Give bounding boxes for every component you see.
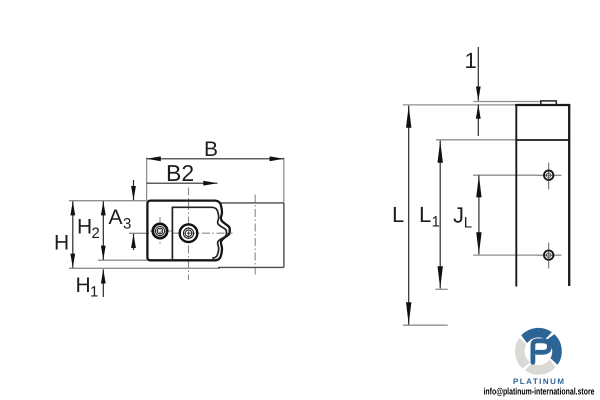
svg-text:H: H (77, 216, 92, 239)
svg-text:info@platinum-international.st: info@platinum-international.store (484, 387, 595, 398)
svg-text:L: L (392, 202, 404, 227)
svg-text:3: 3 (123, 216, 131, 233)
svg-text:L: L (464, 215, 472, 232)
svg-text:1: 1 (90, 284, 98, 301)
svg-text:PLATINUM: PLATINUM (513, 377, 566, 386)
svg-text:B: B (204, 138, 218, 161)
svg-text:A: A (109, 206, 123, 229)
svg-text:1: 1 (432, 214, 440, 231)
svg-text:L: L (419, 202, 431, 227)
svg-text:H: H (54, 232, 69, 255)
svg-text:B2: B2 (166, 160, 194, 186)
svg-text:J: J (453, 202, 464, 227)
svg-text:1: 1 (465, 48, 477, 73)
svg-text:H: H (76, 274, 91, 297)
svg-text:2: 2 (92, 225, 100, 242)
